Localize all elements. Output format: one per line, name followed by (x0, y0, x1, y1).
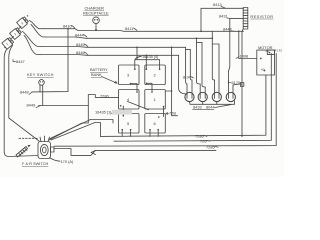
svg-text:16435 [1]: 16435 [1] (95, 110, 111, 115)
solenoid coil 2 (198, 92, 207, 101)
svg-text:3: 3 (20, 21, 24, 25)
svg-text:A2: A2 (261, 68, 265, 72)
svg-text:KEY SWITCH: KEY SWITCH (27, 72, 54, 77)
battery cell numbers tilted (5, 21, 24, 46)
leader 834 (191, 77, 194, 79)
wire 8444 bus2 (46, 37, 212, 38)
leader 8447 (13, 60, 16, 62)
F&R switch body (38, 136, 54, 159)
wire bank top bracket (135, 47, 160, 69)
svg-text:8431: 8431 (219, 14, 228, 19)
svg-text:1: 1 (154, 97, 156, 102)
battery B1 (bottom tilted) (2, 37, 14, 49)
battery B3 (top tilted) (17, 16, 29, 28)
svg-text:8448: 8448 (223, 27, 232, 32)
wire 8413 to resistor top (201, 8, 244, 31)
svg-text:8411: 8411 (125, 26, 133, 31)
svg-text:726: 726 (200, 139, 207, 144)
svg-text:2: 2 (13, 32, 17, 36)
wire motor F1 down (114, 54, 271, 142)
battery 1 (145, 90, 166, 110)
wire jumper bat1-bat6 (163, 107, 165, 117)
wire battery lead to bus 8445 (22, 31, 42, 46)
label leader squiggles (13, 7, 239, 148)
battery 5 (119, 114, 140, 134)
wire motor F2 down (54, 54, 276, 147)
solenoid coil 3 (212, 92, 221, 101)
svg-text:7286: 7286 (100, 94, 109, 99)
wire 16435-1 leader (112, 111, 119, 114)
svg-text:8446: 8446 (76, 50, 85, 55)
svg-text:3: 3 (127, 73, 129, 78)
battery B2 (middle tilted) (10, 27, 22, 39)
wire jumper bat3-bat4 (131, 84, 138, 93)
battery 6 (145, 114, 166, 134)
svg-text:1498: 1498 (240, 53, 249, 58)
svg-text:8444: 8444 (75, 32, 84, 37)
svg-text:8447: 8447 (16, 59, 25, 64)
battery 2 (145, 65, 166, 85)
wire 1498 to motor (239, 31, 257, 58)
leader 8411 (134, 28, 138, 31)
battery 3 (119, 65, 140, 85)
motor terminal labels (261, 49, 283, 72)
leader 8444 (84, 35, 88, 38)
battery jumper B2-B3 (19, 27, 21, 29)
svg-text:7285: 7285 (206, 145, 215, 150)
leader 7285 bottom (215, 145, 219, 148)
battery 4 (119, 90, 140, 110)
leader 8445 (85, 44, 89, 47)
svg-text:170 (A): 170 (A) (61, 159, 74, 164)
battery terminal dots (4, 15, 28, 48)
leader 8431 (227, 17, 230, 19)
svg-text:8449: 8449 (27, 103, 36, 108)
leader 1498 (236, 57, 239, 59)
wire motor A2 down (101, 75, 266, 136)
wire battery lead to bus 8446 (24, 35, 41, 54)
wire 8445 bus3 (42, 46, 186, 49)
leader 8448 right (232, 30, 236, 32)
leader 8446 (85, 52, 89, 55)
leader 8413 (221, 7, 226, 9)
svg-text:F & R SWITCH: F & R SWITCH (22, 161, 49, 166)
leader 8410 (72, 26, 76, 29)
svg-text:8448: 8448 (20, 90, 29, 95)
svg-text:8445: 8445 (76, 42, 85, 47)
svg-text:8044: 8044 (206, 105, 215, 110)
leader 6170 (229, 81, 232, 83)
wire fan to F&R switch (50, 120, 91, 139)
svg-text:RECEPTACLE: RECEPTACLE (83, 11, 109, 16)
svg-text:8433: 8433 (193, 105, 202, 110)
svg-text:RESISTOR: RESISTOR (250, 14, 273, 19)
svg-text:1: 1 (5, 42, 9, 46)
wire 8446 bus4 (41, 54, 179, 57)
solenoid coil 1 (185, 92, 194, 101)
wire inner left vertical (9, 46, 39, 142)
lever arrow (16, 145, 31, 157)
solenoid coil 4 (226, 92, 235, 101)
svg-text:8410: 8410 (63, 24, 72, 29)
leader 8044 to coil4 (215, 105, 231, 108)
leader 8433 8044 underline (193, 108, 215, 110)
svg-text:72B: 72B (169, 111, 176, 116)
leader 7286 bottom (204, 135, 208, 136)
wire 6170 resistor bottom drop (242, 29, 243, 136)
motor (257, 50, 275, 75)
svg-text:2: 2 (154, 73, 156, 78)
wire jumper bat2-bat1 (147, 83, 152, 92)
wire bank tap from bus4 (145, 55, 147, 69)
leader battery bank arrow (102, 77, 118, 84)
svg-text:A1: A1 (266, 49, 270, 53)
wire battery lead to bus 8410 (30, 21, 45, 29)
charger receptacle (93, 17, 100, 24)
wire key feed vertical x68 (32, 29, 68, 92)
svg-text:BANK: BANK (91, 72, 102, 77)
junction dots (67, 28, 243, 137)
wire 8410 bus1 (44, 29, 244, 32)
staircase verticals to solenoids (179, 55, 186, 94)
leader 16435-4 (137, 57, 142, 59)
wire jumper diagonal bat4-bat6 (128, 102, 149, 110)
svg-text:8413: 8413 (213, 2, 222, 7)
bottom stepped wire (54, 149, 216, 156)
wire 8431 to resistor mid and coil4 (229, 18, 244, 71)
wire battery lead to bus 8444 (31, 25, 46, 38)
leader 726 bottom (207, 139, 211, 142)
wire 8447 battery drop left (4, 50, 38, 157)
battery jumper B1-B2 (12, 37, 14, 39)
leader 8448 left (29, 92, 32, 95)
leader 8449 (36, 106, 41, 108)
solenoid bottom bus (190, 101, 235, 105)
wire bank right exit 72B (165, 47, 177, 115)
wire jumper bat4-bat5 (122, 106, 124, 116)
wire bank bottom drops (122, 130, 158, 136)
smudge (112, 110, 132, 115)
svg-text:16435 [4]: 16435 [4] (142, 54, 158, 59)
resistor (243, 8, 248, 30)
svg-text:F2: F2 (279, 49, 283, 53)
svg-text:6170: 6170 (232, 80, 241, 85)
arrow mark (91, 150, 96, 154)
key switch (39, 80, 45, 86)
leader dashed assembly (19, 137, 38, 139)
leader 72B (166, 113, 169, 115)
svg-text:5: 5 (127, 121, 129, 126)
wire 7286 into bank (90, 95, 118, 98)
svg-text:4: 4 (127, 97, 130, 102)
svg-text:6: 6 (154, 121, 156, 126)
